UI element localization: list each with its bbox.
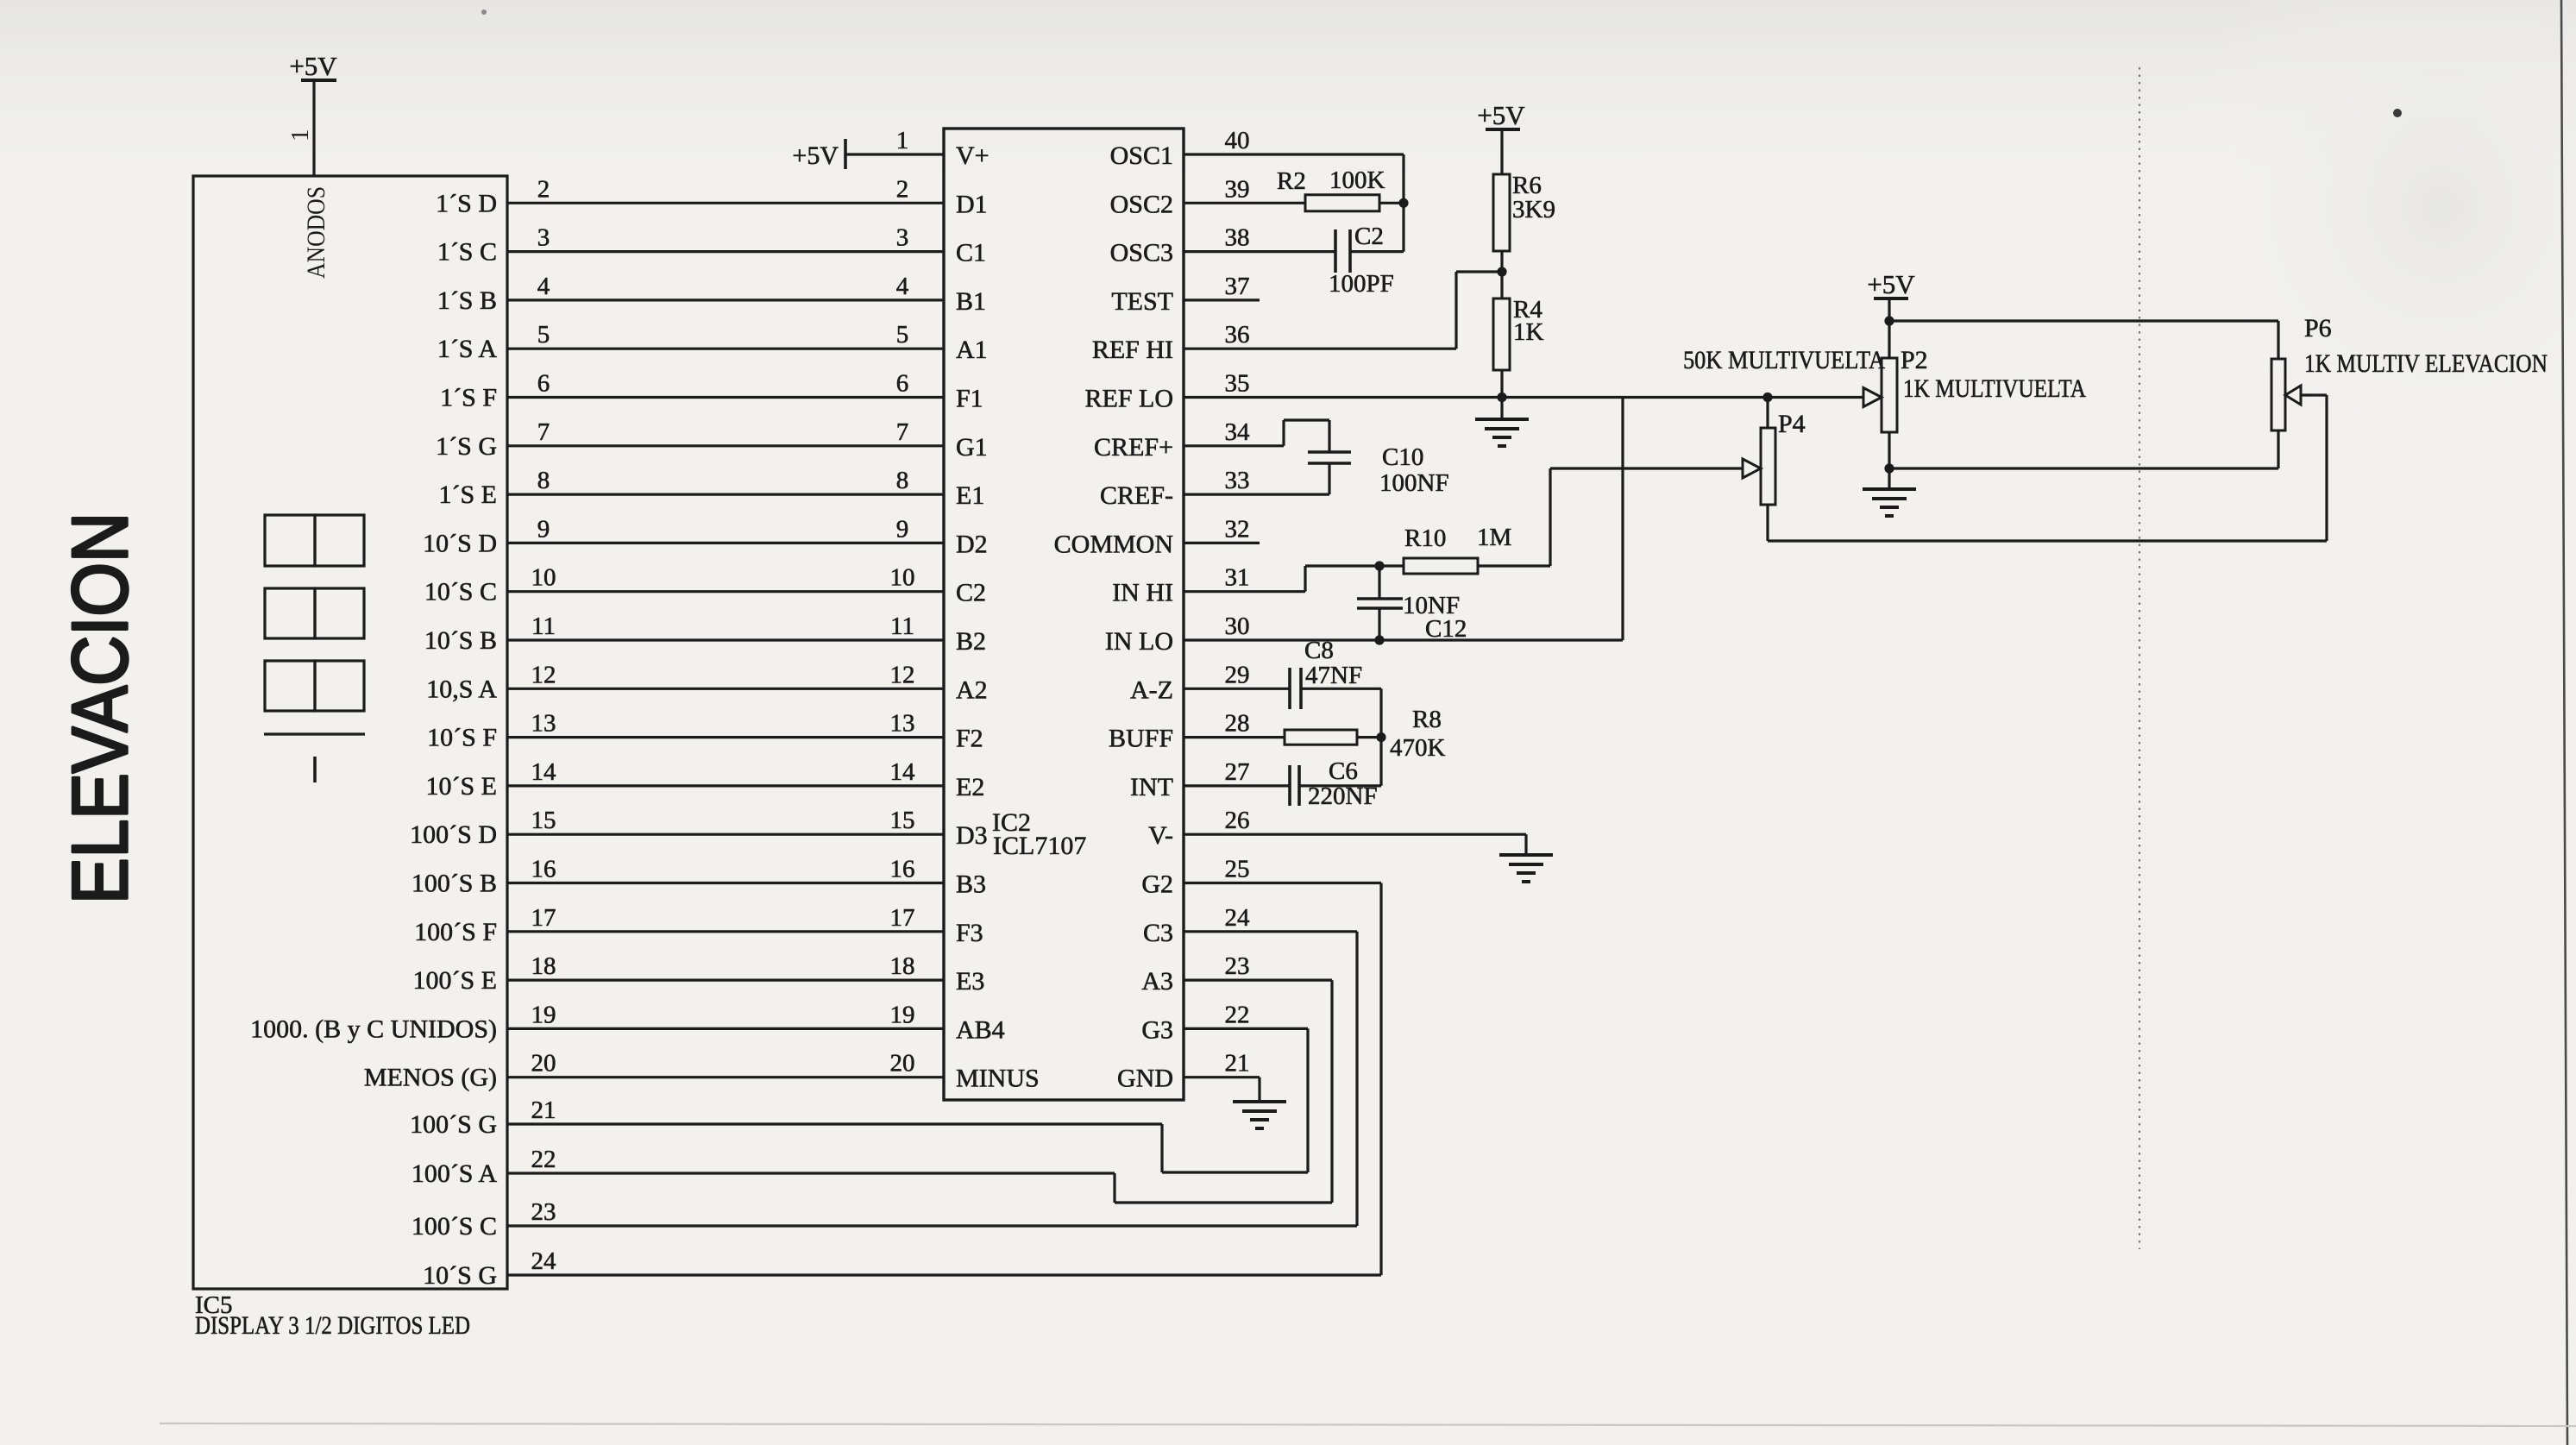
resistor R6: [1493, 174, 1510, 251]
junction R8 riser: [1376, 732, 1385, 742]
svg-text:8: 8: [537, 467, 550, 494]
svg-text:15: 15: [890, 807, 915, 834]
wire to P6 top: [1889, 319, 2278, 322]
svg-text:C10: C10: [1382, 443, 1423, 471]
wire display to IC2 pin 12: [507, 688, 944, 690]
wire display to IC2 pin 16: [507, 882, 944, 884]
wire pin 36 REF HI: [1184, 348, 1456, 350]
svg-text:MINUS: MINUS: [956, 1065, 1040, 1093]
svg-text:AB4: AB4: [956, 1015, 1005, 1044]
wire to P6 bottom: [1889, 467, 2278, 469]
wire IN LO riser to REF LO line: [1621, 398, 1624, 641]
svg-text:35: 35: [1225, 370, 1250, 398]
svg-text:C2: C2: [1354, 223, 1384, 250]
wire display pin 22 100'S A to A3: [507, 1172, 1115, 1174]
svg-text:3: 3: [537, 224, 550, 252]
wire display to IC2 pin 2: [507, 202, 944, 204]
wire C6 to riser: [1299, 784, 1381, 787]
svg-text:1´S A: 1´S A: [437, 335, 498, 363]
wire display pin 21 100'S G to G3: [507, 1122, 1162, 1125]
svg-text:20: 20: [890, 1050, 915, 1077]
wire pin1 V+: [845, 153, 944, 155]
svg-text:26: 26: [1225, 807, 1250, 834]
svg-text:32: 32: [1225, 515, 1250, 543]
svg-text:E2: E2: [956, 773, 984, 801]
svg-text:25: 25: [1225, 856, 1250, 883]
svg-text:IN LO: IN LO: [1105, 627, 1173, 656]
svg-text:+5V: +5V: [289, 51, 337, 81]
svg-text:100´S F: 100´S F: [414, 918, 497, 946]
svg-text:5: 5: [537, 321, 550, 349]
svg-text:10,S A: 10,S A: [426, 675, 497, 703]
svg-text:+5V: +5V: [1867, 269, 1915, 299]
svg-text:100´S D: 100´S D: [410, 820, 497, 849]
svg-text:8: 8: [896, 467, 909, 494]
svg-text:OSC3: OSC3: [1110, 239, 1173, 267]
page fold dotted line: [2139, 67, 2140, 1249]
svg-text:16: 16: [531, 856, 556, 883]
svg-text:COMMON: COMMON: [1054, 530, 1173, 558]
wire C2 to riser: [1350, 250, 1404, 253]
svg-text:2: 2: [896, 175, 909, 203]
svg-text:10´S C: 10´S C: [424, 578, 497, 606]
svg-text:100´S G: 100´S G: [410, 1110, 497, 1139]
svg-text:G1: G1: [956, 433, 988, 462]
wire +5V to display box: [312, 80, 315, 176]
wire display to IC2 pin 17: [507, 930, 944, 933]
svg-text:9: 9: [896, 515, 909, 543]
display digit segment squares row 1: [265, 515, 364, 566]
scan edge line bottom: [160, 1423, 2576, 1426]
potentiometer P4 body: [1761, 428, 1775, 505]
wire display to IC2 pin 14: [507, 784, 944, 787]
svg-text:1K MULTIV ELEVACION: 1K MULTIV ELEVACION: [2304, 349, 2548, 378]
svg-text:1´S F: 1´S F: [440, 384, 497, 412]
wire R4 to ground: [1500, 370, 1503, 419]
wire P2 bottom: [1888, 432, 1890, 489]
svg-text:10´S E: 10´S E: [426, 772, 498, 801]
svg-text:100K: 100K: [1329, 166, 1385, 194]
svg-text:14: 14: [890, 758, 916, 786]
svg-text:36: 36: [1225, 321, 1250, 349]
svg-text:13: 13: [531, 710, 556, 738]
svg-text:7: 7: [896, 418, 909, 446]
capacitor C2: [1334, 229, 1337, 273]
capacitor C8: [1288, 668, 1291, 709]
wire R2 to riser: [1379, 202, 1404, 204]
wire pin 38 OSC3: [1184, 250, 1335, 253]
resistor R10: [1404, 558, 1478, 574]
wire pin 23 A3 riser: [1184, 978, 1332, 981]
svg-text:34: 34: [1225, 418, 1251, 446]
capacitor C6: [1288, 765, 1291, 806]
svg-text:BUFF: BUFF: [1109, 725, 1173, 753]
wire +5V to R6: [1500, 129, 1503, 174]
svg-text:24: 24: [1225, 904, 1251, 932]
svg-text:9: 9: [537, 515, 550, 543]
svg-text:17: 17: [531, 904, 556, 932]
wire display to IC2 pin 11: [507, 638, 944, 641]
junction R6/R4/REF HI: [1497, 267, 1506, 276]
wire display to IC2 pin 18: [507, 978, 944, 981]
svg-text:100´S B: 100´S B: [412, 870, 497, 898]
svg-text:1K MULTIVUELTA: 1K MULTIVUELTA: [1903, 374, 2086, 403]
svg-text:22: 22: [1225, 1001, 1250, 1028]
wire R6 to R4: [1500, 251, 1503, 298]
svg-text:+5V: +5V: [792, 141, 839, 170]
svg-text:C1: C1: [956, 239, 986, 267]
speck right: [2393, 109, 2402, 117]
svg-text:1´S E: 1´S E: [439, 481, 498, 509]
svg-text:GND: GND: [1117, 1065, 1173, 1093]
svg-text:C3: C3: [1143, 919, 1173, 947]
svg-text:1´S D: 1´S D: [436, 189, 497, 217]
capacitor C10: [1308, 450, 1351, 454]
speck top: [481, 9, 487, 15]
svg-text:100NF: 100NF: [1379, 469, 1449, 497]
svg-text:2: 2: [537, 175, 550, 203]
svg-text:A3: A3: [1141, 967, 1173, 996]
svg-text:1000. (B y C UNIDOS): 1000. (B y C UNIDOS): [250, 1015, 497, 1043]
wire display to IC2 pin 5: [507, 348, 944, 350]
svg-text:ICL7107: ICL7107: [993, 832, 1086, 860]
wire display to IC2 pin 7: [507, 444, 944, 447]
svg-text:V+: V+: [956, 141, 990, 170]
wire pin 35 REF LO to P2 wiper: [1184, 396, 1865, 399]
svg-text:1K: 1K: [1513, 318, 1544, 346]
display minus segment line: [264, 732, 365, 735]
op-amp/adc IC2 box ICL7107: [944, 129, 1184, 1100]
svg-text:ANODOS: ANODOS: [302, 186, 330, 279]
svg-text:1´S G: 1´S G: [436, 432, 497, 461]
svg-text:7: 7: [537, 418, 550, 446]
svg-text:F2: F2: [956, 725, 983, 753]
svg-text:TEST: TEST: [1111, 287, 1173, 316]
svg-text:1´S B: 1´S B: [437, 286, 497, 315]
resistor R8: [1285, 730, 1357, 744]
svg-text:DISPLAY 3 1/2 DIGITOS LED: DISPLAY 3 1/2 DIGITOS LED: [195, 1311, 470, 1340]
resistor R4: [1493, 298, 1510, 370]
svg-text:15: 15: [531, 807, 556, 834]
svg-text:4: 4: [896, 273, 909, 300]
svg-text:F1: F1: [956, 385, 983, 413]
svg-text:ELEVACION: ELEVACION: [57, 512, 144, 904]
svg-text:G3: G3: [1141, 1015, 1173, 1044]
svg-text:B3: B3: [956, 870, 986, 899]
svg-text:V-: V-: [1148, 821, 1173, 850]
svg-text:4: 4: [537, 273, 550, 300]
svg-text:100´S C: 100´S C: [412, 1212, 497, 1241]
svg-text:MENOS (G): MENOS (G): [364, 1064, 497, 1092]
svg-text:E3: E3: [956, 967, 984, 996]
wire pin 32 COMMON stub: [1184, 542, 1260, 544]
svg-text:5: 5: [896, 321, 909, 349]
svg-text:F3: F3: [956, 919, 983, 947]
wire riser A-Z to C6: [1379, 688, 1382, 786]
svg-text:+5V: +5V: [1477, 100, 1525, 130]
wire pin 22 G3 riser: [1184, 1027, 1308, 1030]
svg-text:D1: D1: [956, 190, 988, 218]
svg-text:B1: B1: [956, 287, 986, 316]
scan edge line right: [2561, 0, 2567, 1445]
svg-text:31: 31: [1225, 564, 1250, 592]
display digit segment squares row 2: [265, 588, 364, 638]
svg-text:1: 1: [286, 129, 314, 142]
svg-text:P6: P6: [2304, 314, 2332, 342]
svg-text:37: 37: [1225, 273, 1250, 300]
svg-text:INT: INT: [1130, 773, 1173, 801]
display half-digit segment dash: [313, 757, 317, 782]
svg-text:B2: B2: [956, 627, 986, 656]
svg-text:10´S G: 10´S G: [423, 1261, 497, 1290]
svg-text:19: 19: [531, 1001, 556, 1028]
P4 wiper arrow: [1743, 459, 1761, 478]
svg-text:23: 23: [1225, 952, 1250, 980]
svg-text:18: 18: [531, 952, 556, 980]
svg-text:6: 6: [537, 370, 550, 398]
svg-text:CREF+: CREF+: [1094, 433, 1173, 462]
wire pin 26 V-: [1184, 833, 1526, 836]
wire pin 34 CREF+: [1184, 444, 1284, 447]
ground below R4: [1475, 419, 1529, 446]
wire display to IC2 pin 20: [507, 1076, 944, 1078]
svg-text:14: 14: [531, 758, 557, 786]
svg-text:C6: C6: [1329, 757, 1358, 785]
svg-text:C8: C8: [1304, 637, 1334, 664]
wire pin 24 C3 riser: [1184, 930, 1357, 933]
display digit segment squares row 3: [265, 661, 364, 711]
svg-text:OSC2: OSC2: [1110, 190, 1173, 218]
wire display pin 23 100'S C to C3: [507, 1224, 1357, 1227]
ground below V-: [1499, 855, 1553, 882]
wire pin 29 A-Z: [1184, 688, 1290, 690]
wire display to IC2 pin 3: [507, 250, 944, 253]
junction C12 / IN LO: [1374, 635, 1384, 644]
junction OSC2/OSC1: [1398, 198, 1408, 208]
svg-text:22: 22: [531, 1146, 556, 1173]
svg-text:29: 29: [1225, 661, 1250, 688]
svg-text:R8: R8: [1412, 706, 1442, 733]
wire pin 33 CREF-: [1184, 493, 1329, 495]
capacitor C12: [1378, 566, 1380, 599]
svg-text:C12: C12: [1425, 615, 1467, 643]
svg-text:19: 19: [890, 1001, 915, 1028]
wire OSC1 riser: [1402, 154, 1404, 252]
wire P4 top to REF LO line: [1766, 398, 1769, 429]
svg-text:1´S C: 1´S C: [437, 238, 497, 267]
svg-text:39: 39: [1225, 175, 1250, 203]
wire pin 39 OSC2: [1184, 202, 1305, 204]
wire display pin 24 10'S G to G2: [507, 1273, 1381, 1276]
wire display to IC2 pin 15: [507, 833, 944, 836]
wire display to IC2 pin 6: [507, 396, 944, 399]
potentiometer P2 body: [1882, 358, 1897, 432]
svg-text:11: 11: [890, 613, 914, 640]
svg-text:REF HI: REF HI: [1092, 336, 1173, 364]
svg-text:1M: 1M: [1477, 524, 1511, 551]
svg-text:R10: R10: [1404, 525, 1446, 552]
potentiometer P6 body: [2271, 359, 2285, 430]
junction P2 bottom / P6 bottom branch: [1884, 463, 1894, 473]
ground below P2: [1863, 489, 1916, 516]
svg-text:C2: C2: [956, 579, 986, 607]
svg-text:10´S D: 10´S D: [423, 529, 497, 557]
wire R8 to riser: [1357, 736, 1381, 738]
svg-text:E1: E1: [956, 481, 984, 510]
svg-text:12: 12: [890, 661, 915, 688]
svg-text:10: 10: [890, 564, 915, 592]
wire display to IC2 pin 10: [507, 590, 944, 593]
svg-text:28: 28: [1225, 710, 1250, 738]
svg-text:G2: G2: [1141, 870, 1173, 899]
svg-text:10´S B: 10´S B: [424, 626, 497, 655]
wire display to IC2 pin 13: [507, 736, 944, 738]
wire pin 25 G2 riser: [1184, 882, 1381, 884]
svg-text:P2: P2: [1901, 346, 1928, 374]
wire R10 to P4 wiper: [1478, 564, 1550, 567]
junction +5V / P6 top branch: [1884, 316, 1894, 325]
wire P4 bottom: [1766, 505, 1769, 541]
svg-text:40: 40: [1225, 127, 1250, 154]
junction R4/REF LO: [1497, 393, 1506, 402]
wire P4 bottom to P6 wiper riser: [1768, 539, 2327, 542]
resistor R2: [1305, 195, 1379, 211]
wire display to IC2 pin 4: [507, 298, 944, 301]
svg-text:16: 16: [890, 856, 915, 883]
display IC5 box: [193, 176, 507, 1289]
svg-text:100´S E: 100´S E: [413, 966, 498, 995]
svg-text:1: 1: [896, 127, 909, 154]
wire display to IC2 pin 19: [507, 1027, 944, 1030]
svg-text:17: 17: [890, 904, 915, 932]
svg-text:10´S F: 10´S F: [427, 724, 497, 752]
svg-text:27: 27: [1225, 758, 1250, 786]
svg-text:6: 6: [896, 370, 909, 398]
P6 wiper arrow: [2285, 386, 2301, 405]
svg-text:12: 12: [531, 661, 556, 688]
svg-text:IN HI: IN HI: [1112, 579, 1173, 607]
junction IN HI / C12 / R10: [1374, 561, 1384, 570]
svg-text:A2: A2: [956, 675, 988, 704]
svg-text:11: 11: [531, 613, 556, 640]
wire pin 37 TEST stub: [1184, 298, 1260, 301]
svg-text:P4: P4: [1778, 410, 1806, 438]
svg-text:47NF: 47NF: [1305, 662, 1362, 689]
wire +5V to P2: [1888, 298, 1890, 358]
svg-text:20: 20: [531, 1050, 556, 1077]
wire C10 to CREF-: [1328, 463, 1330, 494]
svg-text:21: 21: [1225, 1050, 1250, 1077]
svg-text:A-Z: A-Z: [1130, 675, 1173, 704]
svg-text:3K9: 3K9: [1512, 196, 1555, 223]
svg-text:21: 21: [531, 1096, 556, 1124]
wire pin 31 IN HI: [1184, 590, 1305, 593]
junction REF LO / P4 top: [1762, 393, 1772, 402]
svg-text:CREF-: CREF-: [1100, 481, 1173, 510]
svg-text:10: 10: [531, 564, 556, 592]
svg-text:3: 3: [896, 224, 909, 252]
wire pin 27 INT: [1184, 784, 1290, 787]
svg-text:30: 30: [1225, 613, 1250, 640]
svg-text:18: 18: [890, 952, 915, 980]
wire pin 30 IN LO: [1184, 638, 1623, 641]
ground below GND pin: [1233, 1102, 1286, 1128]
wire pin 21 GND: [1184, 1076, 1260, 1078]
svg-text:23: 23: [531, 1198, 556, 1226]
svg-text:33: 33: [1225, 467, 1250, 494]
P2 wiper arrow: [1863, 388, 1882, 407]
svg-text:100PF: 100PF: [1329, 270, 1394, 298]
svg-text:13: 13: [890, 710, 915, 738]
svg-text:50K MULTIVUELTA: 50K MULTIVUELTA: [1683, 346, 1885, 374]
wire display to IC2 pin 8: [507, 493, 944, 495]
svg-text:REF LO: REF LO: [1084, 385, 1173, 413]
wire pin 28 BUFF: [1184, 736, 1285, 738]
svg-text:38: 38: [1225, 224, 1250, 252]
svg-text:470K: 470K: [1390, 734, 1446, 762]
svg-text:OSC1: OSC1: [1110, 141, 1173, 170]
svg-text:D2: D2: [956, 530, 988, 558]
wire C8 to riser: [1301, 688, 1381, 690]
svg-text:24: 24: [531, 1247, 557, 1275]
svg-text:220NF: 220NF: [1308, 782, 1378, 810]
svg-text:D3: D3: [956, 821, 988, 850]
wire display to IC2 pin 9: [507, 542, 944, 544]
svg-text:R2: R2: [1277, 167, 1306, 195]
svg-text:100´S A: 100´S A: [412, 1159, 498, 1188]
wire pin 40 OSC1: [1184, 153, 1404, 155]
svg-text:A1: A1: [956, 336, 988, 364]
